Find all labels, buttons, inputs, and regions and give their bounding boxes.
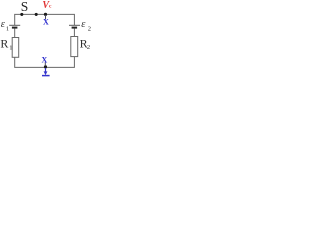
svg-text:X: X (42, 55, 48, 64)
svg-text:1: 1 (6, 25, 9, 32)
svg-text:2: 2 (88, 26, 91, 33)
svg-text:S: S (21, 0, 29, 14)
svg-text:1: 1 (9, 45, 12, 52)
svg-text:R: R (0, 36, 8, 50)
svg-text:X: X (43, 18, 49, 27)
svg-text:2: 2 (87, 44, 90, 51)
